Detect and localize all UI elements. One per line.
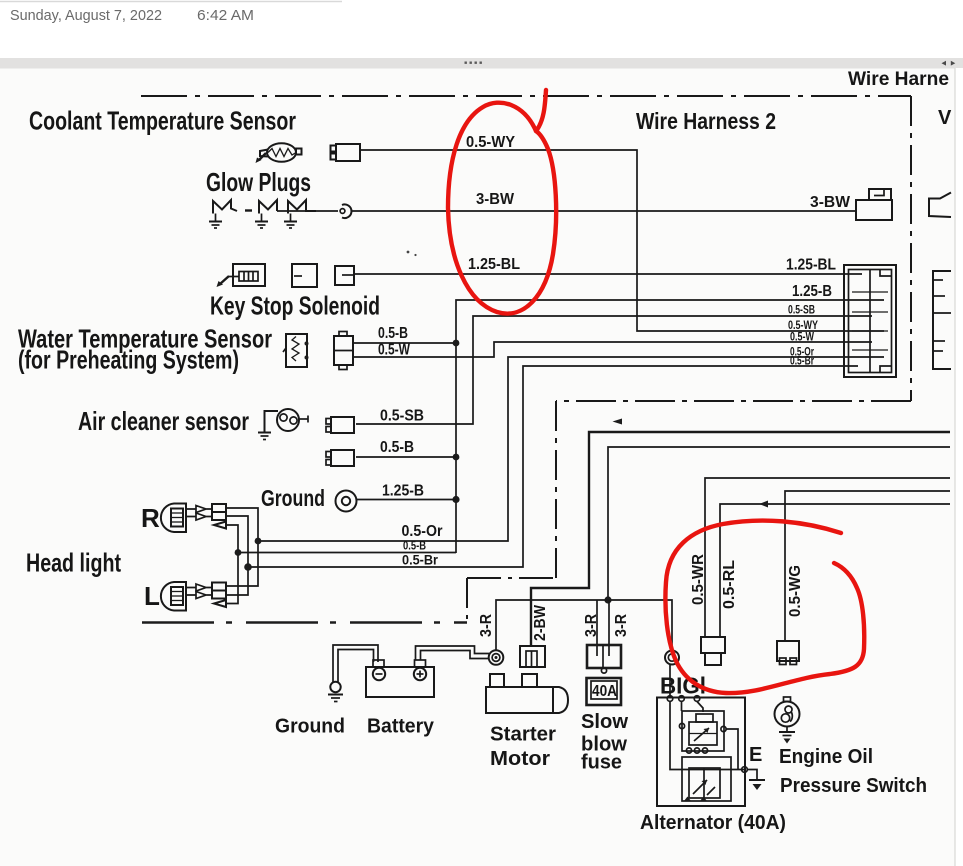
wire 0.5-SB air cleaner sensor xyxy=(356,316,872,424)
headlight L ground contact xyxy=(214,600,226,607)
glow plug dash xyxy=(245,209,252,211)
arrowhead on 0.5-RL wire xyxy=(759,501,768,508)
alternator internal leads xyxy=(681,702,683,712)
dash-dot border step horizontal xyxy=(467,577,556,579)
glow plug 3 ground xyxy=(284,221,297,223)
connector 0.5-WG xyxy=(777,641,799,661)
svg-text:Alternator (40A): Alternator (40A) xyxy=(640,812,786,834)
svg-text:R: R xyxy=(141,503,160,533)
alternator regulator arrow xyxy=(694,728,709,741)
svg-text:(for Preheating System): (for Preheating System) xyxy=(18,345,239,375)
wire 0.5-B connector 2 xyxy=(356,456,456,458)
alternator E terminal xyxy=(742,767,748,773)
onenote top hairline xyxy=(0,1,342,3)
glow plug connector xyxy=(342,204,351,218)
svg-text:0.5-WR: 0.5-WR xyxy=(690,554,707,605)
water temp sensor terminals xyxy=(305,342,309,346)
headlight R filament xyxy=(171,509,183,527)
air cleaner sensor ground bracket xyxy=(265,411,279,432)
band left arrow xyxy=(942,61,947,66)
svg-text:0.5-B: 0.5-B xyxy=(378,325,408,342)
battery ground post xyxy=(330,682,340,692)
red annotation bottom loop xyxy=(665,521,864,693)
water temp connector xyxy=(334,336,353,365)
svg-text:0.5-W: 0.5-W xyxy=(378,342,411,359)
starter motor body xyxy=(486,687,553,713)
svg-text:0.5-WY: 0.5-WY xyxy=(466,134,515,151)
coolant sensor zigzag element xyxy=(268,149,296,157)
right edge connector 2 partial xyxy=(933,271,951,369)
dash-dot border inner horizontal xyxy=(556,400,911,402)
wire 0.5-WY coolant sensor xyxy=(360,150,884,331)
svg-text:3-R: 3-R xyxy=(613,614,630,637)
svg-text:Sunday, August 7, 2022: Sunday, August 7, 2022 xyxy=(10,7,162,24)
svg-text:Pressure Switch: Pressure Switch xyxy=(780,775,927,797)
red annotation tail top xyxy=(536,90,546,131)
wire 1.25-BL key stop solenoid xyxy=(354,273,862,275)
svg-text:Coolant Temperature Sensor: Coolant Temperature Sensor xyxy=(29,106,296,136)
svg-text:0.5-SB: 0.5-SB xyxy=(380,408,424,425)
wire 0.5-WG xyxy=(785,491,950,641)
battery ground cable double line xyxy=(333,645,378,682)
dash-dot border right vertical xyxy=(910,96,912,401)
svg-text:3-BW: 3-BW xyxy=(810,194,851,211)
svg-text:3-BW: 3-BW xyxy=(476,191,515,208)
alternator bottom marks xyxy=(684,797,691,802)
coolant temperature sensor body xyxy=(267,143,296,162)
wire 3-R slow fuse terminal 1 xyxy=(596,600,598,646)
gray divider band xyxy=(0,58,963,69)
svg-text:fuse: fuse xyxy=(581,752,622,774)
key stop solenoid middle block xyxy=(292,264,317,287)
connector 0.5-B lower xyxy=(331,450,354,466)
headlight R wire a xyxy=(226,508,258,586)
alternator terminal IG xyxy=(679,696,685,702)
svg-text:Air cleaner sensor: Air cleaner sensor xyxy=(78,406,249,436)
engine oil pressure switch body xyxy=(775,702,800,727)
ground ring symbol xyxy=(336,491,357,512)
svg-text:6:42 AM: 6:42 AM xyxy=(197,7,254,24)
red annotation ellipse loop xyxy=(448,103,556,314)
svg-text:Motor: Motor xyxy=(490,748,550,770)
wire 0.5-W water temp sensor xyxy=(353,342,872,357)
multi-pin connector notch xyxy=(880,270,892,277)
key stop solenoid plug prong xyxy=(220,276,229,284)
speck dots xyxy=(407,251,410,254)
glow plug 2 ground stem xyxy=(261,214,263,222)
engine oil switch ground xyxy=(786,727,788,732)
svg-text:Ground: Ground xyxy=(275,716,345,738)
battery negative post xyxy=(373,660,384,667)
svg-text:Starter: Starter xyxy=(490,724,556,746)
alternator node circles xyxy=(679,723,684,728)
glow plug 2 ground xyxy=(255,221,268,223)
svg-text:Battery: Battery xyxy=(367,716,435,738)
arrow speck xyxy=(613,419,623,425)
svg-text:Wire Harne: Wire Harne xyxy=(848,69,949,90)
slow blow fuse bottom nub xyxy=(601,668,606,673)
coolant sensor connector xyxy=(336,144,360,161)
battery positive post xyxy=(415,660,426,667)
battery positive cable double line xyxy=(416,646,490,660)
glow plug 1 ground stem xyxy=(215,214,217,222)
right edge connector top partial xyxy=(929,193,951,218)
key stop solenoid body xyxy=(233,264,265,286)
dash-dot border bottom xyxy=(142,621,467,624)
starter motor end cap xyxy=(553,687,568,713)
headlight R bulb xyxy=(161,504,186,533)
glow plug 1 ground xyxy=(209,221,222,223)
alternator E ground xyxy=(749,779,765,781)
water temp sensor zigzag xyxy=(292,337,299,362)
svg-text:3-R: 3-R xyxy=(583,614,600,637)
junction dot 0.5-B 2 xyxy=(453,454,460,461)
svg-text:1.25-BL: 1.25-BL xyxy=(468,256,520,273)
svg-text:V: V xyxy=(938,107,952,129)
multi-pin connector divider xyxy=(869,270,871,373)
headlight L filament xyxy=(171,587,183,605)
alternator regulator box xyxy=(682,711,724,751)
svg-text:Head light: Head light xyxy=(26,548,121,578)
coolant sensor left plug xyxy=(260,150,268,157)
junction dot 3-R xyxy=(604,596,611,603)
svg-text:Key Stop Solenoid: Key Stop Solenoid xyxy=(210,291,380,321)
wire 3-R slow fuse feed xyxy=(608,447,950,600)
wire 0.5-B headlight xyxy=(238,552,456,554)
key stop solenoid connector xyxy=(335,266,354,285)
starter motor post 2 xyxy=(522,674,537,687)
wire ground bundle riser xyxy=(456,300,884,553)
alternator rectifier inner xyxy=(689,768,720,798)
battery ground hatch xyxy=(328,694,343,696)
junction dot headlight 0.5-B xyxy=(235,549,242,556)
coolant sensor plug prong xyxy=(259,153,266,160)
headlight R wire c xyxy=(226,525,238,604)
svg-text:0.5-B: 0.5-B xyxy=(380,439,414,456)
ring terminal 3-R xyxy=(489,650,504,665)
svg-text:0.5-Or: 0.5-Or xyxy=(402,523,443,540)
wire 0.5-WR xyxy=(705,478,950,637)
slow blow fuse box xyxy=(587,645,621,668)
junction dot headlight 0.5-Or xyxy=(255,538,262,545)
svg-text:1.25-B: 1.25-B xyxy=(792,283,832,300)
headlight R connector xyxy=(212,504,226,512)
glow plug element 3 xyxy=(288,200,316,214)
alternator right link xyxy=(726,729,738,770)
svg-text:Wire Harness 2: Wire Harness 2 xyxy=(636,108,776,134)
glow plug wire to connector xyxy=(277,210,338,212)
alternator rectifier box xyxy=(682,757,731,801)
alternator regulator inner xyxy=(689,722,717,745)
junction dot headlight 0.5-Br xyxy=(244,563,252,571)
air cleaner connector xyxy=(331,417,354,433)
page right edge xyxy=(956,68,963,866)
band dots xyxy=(465,62,467,64)
svg-text:0.5-B: 0.5-B xyxy=(403,539,426,553)
wire 0.5-Br headlight xyxy=(248,366,858,567)
wire 2-BW feed xyxy=(531,432,950,647)
alternator diode arrow xyxy=(693,780,707,794)
headlight L connector xyxy=(212,583,226,591)
junction dot 0.5-B xyxy=(453,340,460,347)
dash-dot border step vertical xyxy=(466,578,468,623)
wire 1.25-B ground xyxy=(357,499,457,501)
water temperature sensor body xyxy=(286,334,307,367)
multi-pin connector pin rows xyxy=(852,291,888,293)
glow plug element 1 xyxy=(213,200,237,214)
wire 3-R bottom rail xyxy=(496,600,672,651)
svg-text:0.5-WG: 0.5-WG xyxy=(787,565,804,617)
dash-dot border top (wire harness 2 boundary) xyxy=(141,95,911,97)
fuse 40A box xyxy=(587,678,622,705)
wire 3-BW glow plugs xyxy=(352,210,856,212)
headlight L bulb xyxy=(161,582,186,611)
wire 3-R slow fuse terminal 2 xyxy=(608,600,610,646)
svg-text:0.5-SB: 0.5-SB xyxy=(788,303,815,317)
svg-text:3-R: 3-R xyxy=(478,614,495,637)
svg-text:E: E xyxy=(749,744,762,766)
3-BW connector right xyxy=(856,200,892,220)
glow plug element 2 xyxy=(259,200,277,214)
alternator outer box xyxy=(657,698,745,807)
svg-text:Slow: Slow xyxy=(581,711,628,733)
svg-text:Engine Oil: Engine Oil xyxy=(779,746,873,768)
alternator E ground wire xyxy=(747,770,757,780)
svg-text:Glow Plugs: Glow Plugs xyxy=(206,167,311,197)
alternator terminal L xyxy=(694,696,700,702)
battery positive terminal xyxy=(414,668,426,680)
headlight R wire b xyxy=(226,516,248,595)
water temp sensor left tick xyxy=(283,348,286,352)
wire 0.5-B water temp sensor xyxy=(353,342,456,344)
fusible link 2-BW xyxy=(520,646,545,667)
svg-text:2-BW: 2-BW xyxy=(532,604,549,641)
multi-pin connector body xyxy=(844,265,896,377)
svg-text:0.5-Br: 0.5-Br xyxy=(790,354,814,368)
grommet ring xyxy=(665,651,679,665)
glow plug 3 ground stem xyxy=(290,214,292,222)
air cleaner sensor right stub xyxy=(299,418,308,420)
band right arrow xyxy=(951,61,956,66)
svg-text:1.25-BL: 1.25-BL xyxy=(786,257,836,274)
svg-text:40A: 40A xyxy=(592,683,617,700)
svg-text:1.25-B: 1.25-B xyxy=(382,483,424,500)
svg-text:0.5-RL: 0.5-RL xyxy=(721,560,738,609)
starter motor post 1 xyxy=(490,674,504,687)
air cleaner sensor ground xyxy=(258,432,271,434)
headlight R ground contact xyxy=(214,522,226,529)
junction dot 1.25-B xyxy=(452,496,459,503)
battery negative terminal xyxy=(373,668,385,680)
svg-text:L: L xyxy=(144,581,160,611)
air cleaner sensor body xyxy=(277,409,299,431)
battery box xyxy=(366,667,434,697)
key stop solenoid coil xyxy=(239,272,258,282)
svg-text:0.5-Br: 0.5-Br xyxy=(402,552,438,568)
connector 0.5-WR 0.5-RL xyxy=(701,637,725,653)
alternator terminal B xyxy=(667,696,673,702)
wire 0.5-RL xyxy=(720,504,950,637)
headlight L contact arrows xyxy=(186,584,212,591)
wire 0.5-Or headlight xyxy=(258,357,884,541)
dash-dot border inner vertical xyxy=(555,401,557,578)
headlight R contact arrows xyxy=(186,506,212,513)
wire grommet to alternator B terminal xyxy=(669,665,671,697)
svg-text:Ground: Ground xyxy=(261,485,325,511)
svg-text:0.5-W: 0.5-W xyxy=(790,330,814,344)
coolant sensor right nub xyxy=(296,149,302,155)
